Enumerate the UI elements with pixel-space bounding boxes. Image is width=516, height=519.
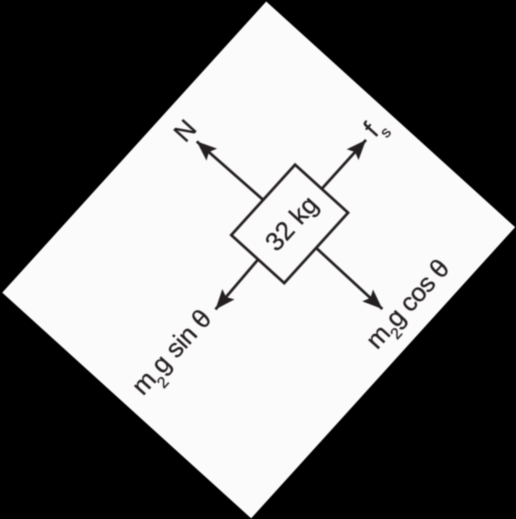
svg-text:fs: fs bbox=[357, 110, 395, 146]
svg-text:m2g sin θ: m2g sin θ bbox=[125, 303, 223, 406]
svg-text:m2g cos θ: m2g cos θ bbox=[359, 253, 459, 358]
